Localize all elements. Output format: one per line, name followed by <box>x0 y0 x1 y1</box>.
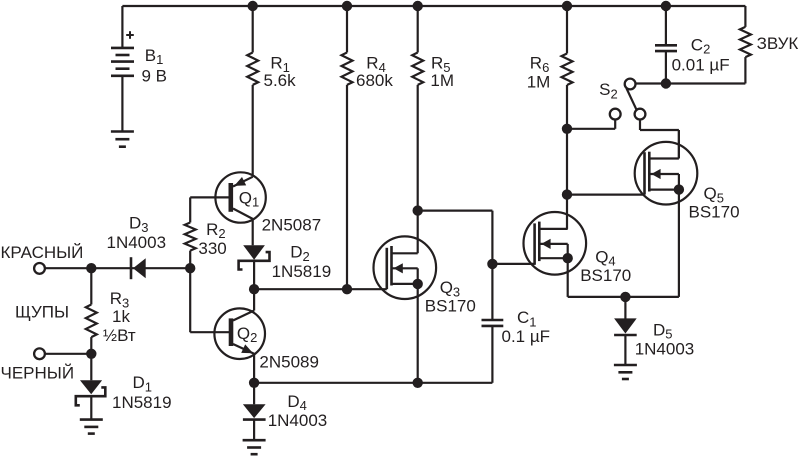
svg-text:1N5819: 1N5819 <box>272 262 332 281</box>
node D2-Q2 collector <box>249 285 258 294</box>
resistor R1 <box>247 6 258 177</box>
diode D4 <box>243 383 266 440</box>
resistor R2 <box>185 223 196 269</box>
label R2 <box>198 220 226 258</box>
label R6 <box>527 54 551 92</box>
diode D3 <box>91 257 190 279</box>
label D3 <box>107 214 167 253</box>
label KRASNYI <box>1 243 84 262</box>
resistor R4 <box>342 6 353 289</box>
node rail-R4 <box>342 1 351 10</box>
node rail-R5 <box>413 1 422 10</box>
ground D4 <box>243 440 266 454</box>
label R1 <box>264 54 297 90</box>
node rail-C2 <box>661 1 670 10</box>
ground D5 <box>614 365 637 379</box>
transistor Q2 <box>214 289 265 383</box>
svg-text:BS170: BS170 <box>689 203 740 222</box>
node D5 junction <box>621 292 630 301</box>
diode D5 <box>614 297 637 365</box>
switch S2 <box>610 79 646 120</box>
label CHERNYI <box>1 364 75 383</box>
label D4 <box>268 392 328 430</box>
svg-text:КРАСНЫЙ: КРАСНЫЙ <box>1 243 84 262</box>
transistor Q3 <box>374 236 437 382</box>
ground battery <box>111 132 134 147</box>
resistor R5 <box>412 6 423 253</box>
svg-text:1M: 1M <box>430 71 454 90</box>
label Q3 <box>425 278 476 316</box>
svg-text:2N5089: 2N5089 <box>259 352 319 371</box>
svg-text:BS170: BS170 <box>425 297 476 316</box>
label R4 <box>356 54 393 90</box>
wire Q2 base <box>190 268 229 332</box>
transistor Q4 <box>524 212 587 297</box>
wire black probe <box>45 353 91 355</box>
label ZVUK <box>757 34 799 53</box>
wire switch common <box>636 82 746 84</box>
svg-text:0.1 µF: 0.1 µF <box>502 327 551 346</box>
terminal red probe <box>34 263 45 274</box>
label B1 <box>142 46 168 86</box>
svg-text:ЧЕРНЫЙ: ЧЕРНЫЙ <box>1 364 75 383</box>
node C1-Q4 gate <box>488 259 497 268</box>
svg-text:1N4003: 1N4003 <box>635 339 695 358</box>
node rail-R1 <box>248 1 257 10</box>
transistor Q5 <box>635 130 698 297</box>
svg-text:9 В: 9 В <box>142 67 168 86</box>
svg-text:BS170: BS170 <box>580 266 631 285</box>
wire branch to C1 <box>418 211 493 320</box>
label R3 <box>103 289 136 345</box>
svg-text:5.6k: 5.6k <box>264 71 297 90</box>
capacitor C1 <box>482 320 504 383</box>
node R6-switch <box>562 124 571 133</box>
diode D1 <box>76 354 106 420</box>
wire emitter bus <box>254 382 492 384</box>
label D1 <box>112 373 172 412</box>
resistor ZVUK <box>740 6 751 84</box>
svg-text:1M: 1M <box>527 73 551 92</box>
node Q3 source-bus <box>413 378 422 387</box>
wire switch right throw <box>640 120 679 159</box>
label Q2 <box>237 324 257 345</box>
svg-text:1N5819: 1N5819 <box>112 393 172 412</box>
label D2 <box>272 243 332 281</box>
diode D2 <box>239 245 270 289</box>
node black-D1 <box>87 349 96 358</box>
transistor Q1 <box>215 172 265 245</box>
node rail-R6 <box>562 1 571 10</box>
svg-text:1k: 1k <box>112 307 130 326</box>
battery B1 <box>111 6 134 132</box>
node D3-R2 <box>186 264 195 273</box>
label 2N5087 <box>262 216 322 235</box>
label R5 <box>430 54 454 90</box>
svg-text:1N4003: 1N4003 <box>107 233 167 252</box>
ground D1 <box>80 420 103 434</box>
wire red probe <box>45 267 91 269</box>
label D5 <box>635 320 695 358</box>
label Q5 <box>689 184 740 222</box>
svg-text:ЩУПЫ: ЩУПЫ <box>15 303 69 322</box>
svg-text:2N5087: 2N5087 <box>262 216 322 235</box>
node red-R3 <box>87 264 96 273</box>
wire top +9V rail <box>122 5 745 7</box>
wire Q5 gate <box>567 194 645 196</box>
wire Q3 gate net <box>254 288 387 290</box>
svg-text:680k: 680k <box>356 71 393 90</box>
node R6-Q5 gate <box>562 190 571 199</box>
node C2 bottom <box>661 79 670 88</box>
resistor R3 <box>86 268 97 354</box>
label S2 <box>599 80 618 101</box>
label C2 <box>672 35 730 74</box>
label 2N5089 <box>259 352 319 371</box>
wire Q1 base <box>190 197 229 222</box>
terminal black probe <box>34 348 45 359</box>
svg-text:330: 330 <box>198 239 226 258</box>
node R5-branch <box>413 206 422 215</box>
node R4-gate <box>342 285 351 294</box>
resistor R6 <box>562 6 573 229</box>
label Q4 <box>580 247 631 285</box>
svg-text:0.01 µF: 0.01 µF <box>672 56 730 75</box>
wire switch left throw <box>567 120 615 129</box>
wire Q4 gate <box>492 263 534 265</box>
node Q2 emitter <box>249 378 258 387</box>
label SHCHUPY <box>15 303 69 322</box>
svg-text:½Вт: ½Вт <box>103 326 136 345</box>
svg-text:1N4003: 1N4003 <box>268 411 328 430</box>
capacitor C2 <box>655 6 677 84</box>
wire source bus <box>568 296 679 298</box>
label C1 <box>502 308 551 346</box>
svg-text:ЗВУК: ЗВУК <box>757 34 799 53</box>
label Q1 <box>239 188 259 209</box>
